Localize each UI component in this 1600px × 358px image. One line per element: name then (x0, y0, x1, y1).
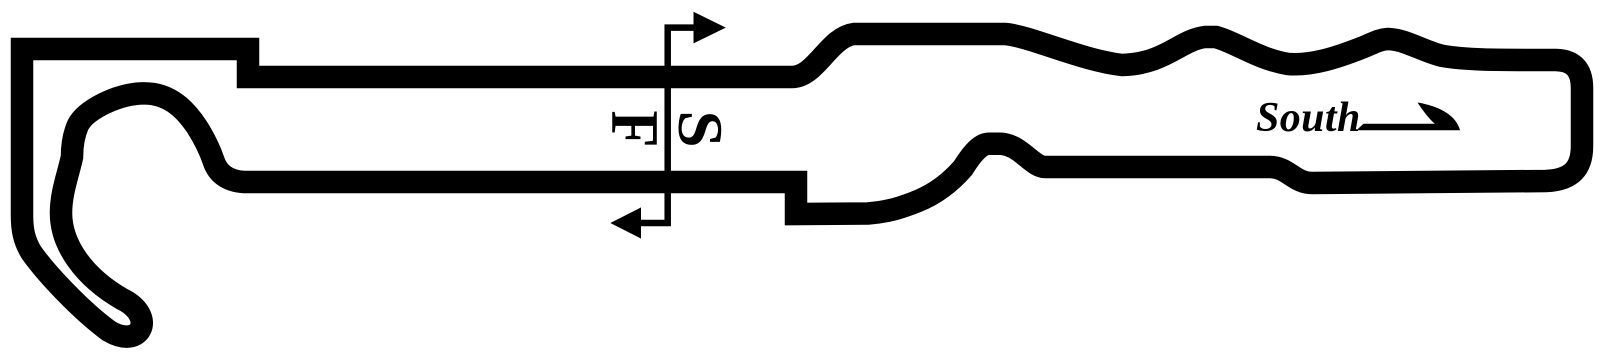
svg-text:South: South (1256, 95, 1361, 141)
svg-text:F: F (597, 111, 672, 148)
svg-text:S: S (665, 110, 735, 147)
